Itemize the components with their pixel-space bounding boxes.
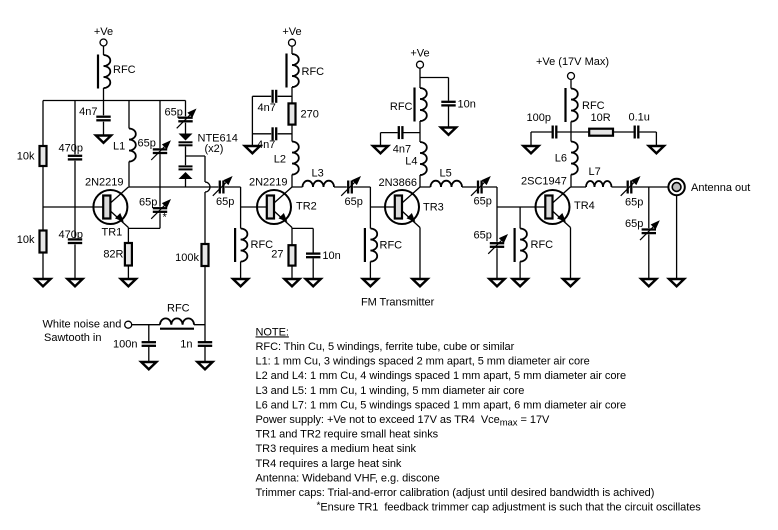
- svg-text:TR2: TR2: [296, 201, 317, 213]
- svg-text:White noise and: White noise and: [43, 319, 122, 331]
- svg-text:Trimmer caps: Trial-and-error: Trimmer caps: Trial-and-error calibratio…: [256, 487, 655, 499]
- svg-text:65p: 65p: [474, 230, 492, 242]
- svg-text:Antenna out: Antenna out: [691, 182, 750, 194]
- svg-text:100n: 100n: [113, 339, 137, 351]
- svg-text:L5: L5: [440, 168, 452, 180]
- svg-text:10n: 10n: [322, 250, 340, 262]
- svg-text:RFC: Thin Cu, 5 windings, ferr: RFC: Thin Cu, 5 windings, ferrite tube, …: [256, 341, 515, 353]
- svg-text:TR1 and TR2 require small heat: TR1 and TR2 require small heat sinks: [256, 429, 439, 441]
- svg-text:2N3866: 2N3866: [379, 177, 418, 189]
- svg-text:1n: 1n: [180, 339, 192, 351]
- svg-text:TR4: TR4: [574, 200, 595, 212]
- svg-text:65p: 65p: [345, 196, 363, 208]
- svg-text:FM Transmitter: FM Transmitter: [361, 297, 435, 309]
- svg-text:10R: 10R: [591, 112, 611, 124]
- svg-text:82R: 82R: [103, 249, 123, 261]
- svg-text:NOTE:: NOTE:: [256, 326, 289, 338]
- svg-text:4n7: 4n7: [257, 139, 275, 151]
- svg-text:L6: L6: [555, 153, 567, 165]
- svg-text:2SC1947: 2SC1947: [521, 176, 567, 188]
- svg-text:65p: 65p: [474, 196, 492, 208]
- svg-text:TR3: TR3: [423, 202, 444, 214]
- svg-text:L3: L3: [312, 168, 324, 180]
- svg-text:TR3 requires a medium heat sin: TR3 requires a medium heat sink: [256, 443, 417, 455]
- svg-text:L1: L1: [113, 141, 125, 153]
- svg-text:2N2219: 2N2219: [249, 177, 288, 189]
- svg-text:L7: L7: [589, 166, 601, 178]
- svg-text:+Ve (17V Max): +Ve (17V Max): [536, 56, 609, 68]
- svg-text:RFC: RFC: [380, 240, 403, 252]
- svg-text:4n7: 4n7: [79, 106, 97, 118]
- svg-text:470p: 470p: [59, 143, 83, 155]
- svg-text:+Ve: +Ve: [410, 48, 429, 60]
- svg-text:(x2): (x2): [205, 143, 224, 155]
- svg-text:+Ve: +Ve: [282, 26, 301, 38]
- svg-text:RFC: RFC: [582, 100, 605, 112]
- svg-text:*Ensure TR1 feedback trimmer: *Ensure TR1 feedback trimmer cap adjustm…: [317, 501, 702, 514]
- svg-text:2N2219: 2N2219: [85, 177, 124, 189]
- svg-text:TR1: TR1: [102, 227, 123, 239]
- svg-text:L2: L2: [274, 154, 286, 166]
- svg-text:10k: 10k: [17, 151, 35, 163]
- svg-text:Antenna: Wideband VHF, e.g. di: Antenna: Wideband VHF, e.g. discone: [256, 472, 440, 484]
- svg-text:65p: 65p: [139, 197, 157, 209]
- svg-text:RFC: RFC: [390, 101, 413, 113]
- svg-text:TR4 requires a large heat sink: TR4 requires a large heat sink: [256, 458, 402, 470]
- svg-text:Power supply: +Ve not to excee: Power supply: +Ve not to exceed 17V as T…: [256, 414, 551, 429]
- svg-text:65p: 65p: [625, 197, 643, 209]
- svg-text:L2 and L4: 1 mm Cu, 4 windings: L2 and L4: 1 mm Cu, 4 windings spaced 1 …: [256, 370, 627, 382]
- svg-text:+Ve: +Ve: [94, 26, 113, 38]
- svg-text:0.1u: 0.1u: [629, 112, 650, 124]
- svg-text:65p: 65p: [216, 196, 234, 208]
- svg-text:L4: L4: [405, 156, 417, 168]
- svg-text:4n7: 4n7: [258, 102, 276, 114]
- svg-text:L6 and L7: 1 mm Cu, 5 windings: L6 and L7: 1 mm Cu, 5 windings spaced 1 …: [256, 399, 627, 411]
- svg-text:270: 270: [301, 109, 319, 121]
- svg-text:10k: 10k: [17, 234, 35, 246]
- svg-text:65p: 65p: [138, 138, 156, 150]
- svg-text:*: *: [163, 212, 168, 224]
- svg-text:27: 27: [271, 249, 283, 261]
- svg-text:RFC: RFC: [167, 303, 190, 315]
- svg-text:10n: 10n: [458, 99, 476, 111]
- svg-text:RFC: RFC: [113, 64, 136, 76]
- svg-text:Sawtooth in: Sawtooth in: [44, 332, 101, 344]
- svg-text:RFC: RFC: [251, 239, 274, 251]
- svg-text:100k: 100k: [175, 252, 199, 264]
- svg-text:L1: 1 mm Cu, 3 windings spaced: L1: 1 mm Cu, 3 windings spaced 2 mm apar…: [256, 356, 590, 368]
- svg-text:L3 and L5: 1 mm Cu, 1 winding,: L3 and L5: 1 mm Cu, 1 winding, 5 mm diam…: [256, 385, 525, 397]
- svg-text:470p: 470p: [59, 229, 83, 241]
- svg-text:4n7: 4n7: [393, 144, 411, 156]
- svg-text:RFC: RFC: [531, 239, 554, 251]
- svg-text:100p: 100p: [527, 112, 551, 124]
- svg-text:65p: 65p: [625, 218, 643, 230]
- svg-text:65p: 65p: [165, 107, 183, 119]
- svg-text:RFC: RFC: [302, 66, 325, 78]
